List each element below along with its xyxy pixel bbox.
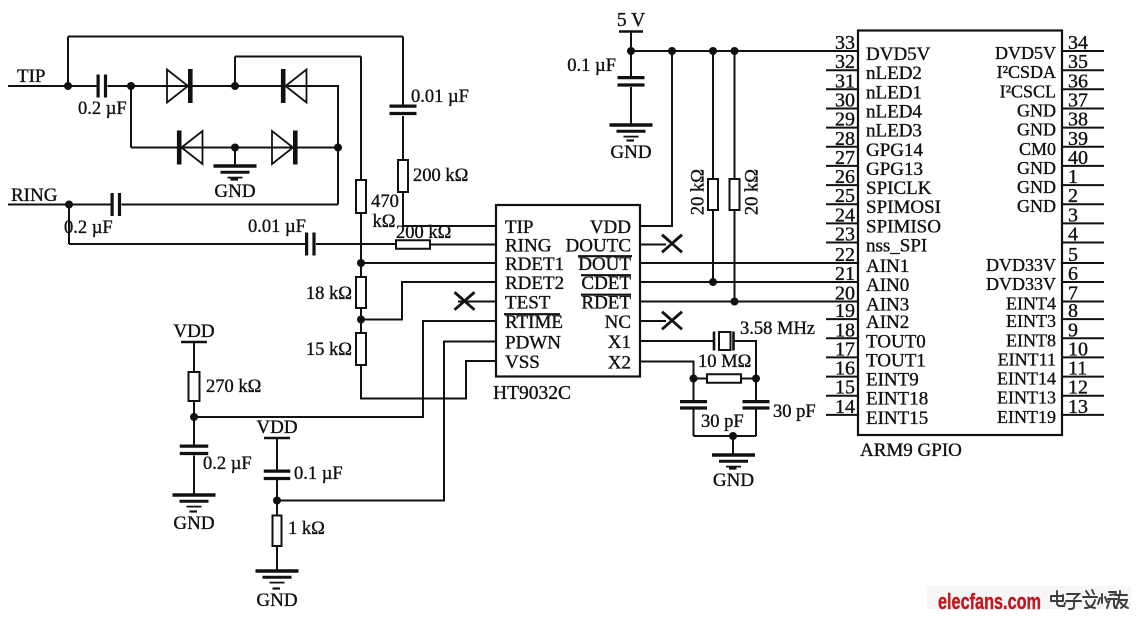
- svg-text:0.01 µF: 0.01 µF: [411, 87, 469, 107]
- svg-text:EINT15: EINT15: [866, 408, 928, 429]
- J1 pin 20 stub (left): [826, 301, 858, 303]
- J1 pin 17 stub (left): [826, 356, 858, 358]
- svg-text:VDD: VDD: [256, 417, 297, 438]
- wire R5 bottom to VSS route: [361, 361, 496, 399]
- wire TIP lead-in: [8, 85, 97, 87]
- J1 pin 9 stub (right): [1062, 337, 1104, 339]
- J1 pin 16 stub (left): [826, 376, 858, 378]
- svg-text:GND: GND: [1017, 120, 1056, 140]
- svg-text:0.2 µF: 0.2 µF: [78, 99, 127, 119]
- wire C7 to bottom rail: [755, 410, 757, 437]
- J1 pin 11 stub (right): [1062, 376, 1104, 378]
- J1 pin 24 stub (left): [826, 222, 858, 224]
- svg-text:GND: GND: [1017, 158, 1056, 178]
- svg-text:kΩ: kΩ: [373, 212, 396, 232]
- J1 pin 1 stub (right): [1062, 184, 1104, 186]
- resistor R5 15k vertical body: [356, 333, 366, 365]
- node bridge bottom-center junction: [231, 144, 239, 152]
- svg-text:PDWN: PDWN: [505, 333, 561, 354]
- wire C4 to R2: [402, 116, 404, 160]
- wire RING drop to coupling line: [68, 205, 70, 245]
- svg-text:VSS: VSS: [505, 352, 540, 373]
- wire top rail corner down to C4: [402, 37, 404, 107]
- wire DOUT to ARM pin 22: [640, 262, 858, 264]
- capacitor C6 30pF plates (left): [680, 400, 707, 403]
- svg-text:23: 23: [835, 224, 855, 246]
- wire VDD to R9: [193, 342, 195, 372]
- wire X2 to left node: [640, 362, 694, 379]
- node crystal right junction: [752, 375, 760, 383]
- wire C2 to bridge right vertical: [122, 204, 339, 206]
- svg-text:AIN0: AIN0: [866, 275, 909, 296]
- J1 pin 4 stub (right): [1062, 242, 1104, 244]
- wire top rail TIP to 0.01uF column: [68, 36, 403, 38]
- J1 pin 39 stub (right): [1062, 146, 1104, 148]
- svg-text:EINT13: EINT13: [997, 388, 1056, 408]
- wire bridge left vertical: [130, 86, 132, 148]
- overline for RTIME (active low): [504, 313, 560, 315]
- svg-text:nLED2: nLED2: [866, 63, 922, 84]
- resistor R4 18k vertical body: [356, 277, 366, 308]
- svg-text:TOUT0: TOUT0: [866, 331, 926, 352]
- resistor R7 20k body: [730, 179, 740, 210]
- connector J1 ARM9 GPIO body: [858, 31, 1062, 436]
- svg-text:GND: GND: [1017, 101, 1056, 121]
- power VDD tick bar: [181, 341, 207, 343]
- node PDWN/1k junction: [273, 497, 281, 505]
- wire C8 to ground: [193, 456, 195, 496]
- wire junction down to C8: [193, 417, 195, 446]
- wire C5 to ground: [630, 87, 632, 125]
- node RDET2 junction: [357, 316, 365, 324]
- svg-text:20 kΩ: 20 kΩ: [743, 169, 763, 215]
- resistor R8 10M horizontal body: [707, 374, 741, 383]
- wire 5V rail to ARM pin 33: [631, 50, 858, 52]
- J1 pin 15 stub (left): [826, 395, 858, 397]
- J1 pin 12 stub (right): [1062, 395, 1104, 397]
- svg-text:TOUT1: TOUT1: [866, 350, 926, 371]
- svg-text:nLED3: nLED3: [866, 121, 922, 142]
- wire C1 to bridge: [108, 85, 132, 87]
- J1 pin 7 stub (right): [1062, 301, 1104, 303]
- J1 pin 27 stub (left): [826, 165, 858, 167]
- svg-text:RDET2: RDET2: [505, 273, 564, 294]
- ground GND (5V filter): [610, 123, 653, 127]
- svg-text:30 pF: 30 pF: [773, 402, 816, 422]
- svg-text:1 kΩ: 1 kΩ: [288, 519, 325, 539]
- wire 20k #2 from rail: [734, 51, 736, 179]
- capacitor C7 30pF plates (right): [743, 400, 770, 403]
- wire rail corner down to R3 470k: [360, 57, 362, 181]
- diode D4 (bottom-right, pointing right): [272, 131, 293, 164]
- svg-text:EINT9: EINT9: [866, 370, 919, 391]
- svg-text:nss_SPI: nss_SPI: [866, 236, 927, 257]
- svg-text:RDET1: RDET1: [505, 254, 564, 275]
- svg-text:0.2 µF: 0.2 µF: [203, 454, 252, 474]
- J1 pin 36 stub (right): [1062, 88, 1104, 90]
- svg-text:DVD5V: DVD5V: [995, 43, 1056, 63]
- node TIP junction: [64, 82, 72, 90]
- capacitor C3 0.01uF plates (series to RING pin): [305, 233, 308, 256]
- no-connect X on NC: [662, 312, 682, 330]
- capacitor C4 0.01uF plates (vertical): [390, 104, 417, 107]
- svg-text:10 MΩ: 10 MΩ: [698, 352, 751, 372]
- power VDD tick bar (1k branch): [264, 437, 290, 439]
- wire right node down to C7: [755, 379, 757, 403]
- svg-text:GND: GND: [713, 470, 754, 491]
- wire 20k #1 from rail: [712, 51, 714, 179]
- wire TEST stub to chip: [458, 301, 496, 303]
- node RDET1 junction: [357, 259, 365, 267]
- J1 pin 29 stub (left): [826, 127, 858, 129]
- svg-text:EINT18: EINT18: [866, 389, 928, 410]
- wire VDD pin up to 5V rail: [640, 51, 672, 226]
- wire RTIME route to 270k junction: [194, 321, 496, 417]
- wire coupling line to 0.01uF cap: [69, 243, 305, 245]
- node R7/RDET junction: [731, 298, 739, 306]
- J1 pin 10 stub (right): [1062, 356, 1104, 358]
- J1 pin 28 stub (left): [826, 146, 858, 148]
- J1 pin 8 stub (right): [1062, 318, 1104, 320]
- J1 pin 33 stub (left): [826, 50, 858, 52]
- no-connect X on TEST pin: [455, 292, 475, 310]
- wire R8 to right node: [741, 378, 756, 380]
- J1 pin 37 stub (right): [1062, 108, 1104, 110]
- resistor R1 200k horizontal body: [396, 240, 430, 249]
- node bridge top-center junction: [231, 82, 239, 90]
- svg-text:200 kΩ: 200 kΩ: [413, 166, 468, 186]
- wire left node down to C6: [693, 379, 695, 403]
- resistor R10 1k body: [273, 516, 282, 547]
- wire R10 to ground: [276, 546, 278, 571]
- wire R1 to RING pin: [430, 244, 496, 246]
- node R6/CDET junction: [709, 278, 717, 286]
- resistor R6 20k body: [708, 179, 718, 210]
- svg-text:SPIMOSI: SPIMOSI: [866, 197, 941, 218]
- diode D3 (bottom-left, pointing left): [182, 131, 203, 164]
- svg-text:GND: GND: [173, 513, 214, 534]
- capacitor C9 0.1uF plates: [264, 470, 291, 473]
- svg-text:4: 4: [1068, 224, 1078, 246]
- wire R7 to RDET line: [734, 210, 736, 302]
- svg-text:GND: GND: [214, 181, 255, 202]
- svg-text:ARM9 GPIO: ARM9 GPIO: [860, 440, 962, 461]
- svg-text:SPIMISO: SPIMISO: [866, 216, 941, 237]
- J1 pin 32 stub (left): [826, 69, 858, 71]
- capacitor C1 0.2uF plates (TIP series): [96, 75, 99, 98]
- wire crystal to right node: [734, 341, 757, 379]
- no-connect X on DOUTC: [662, 235, 682, 253]
- J1 pin 14 stub (left): [826, 414, 858, 416]
- svg-text:0.2 µF: 0.2 µF: [64, 218, 113, 238]
- J1 pin 30 stub (left): [826, 108, 858, 110]
- svg-text:VDD: VDD: [173, 321, 214, 342]
- svg-text:0.1 µF: 0.1 µF: [294, 464, 343, 484]
- svg-text:RING: RING: [11, 185, 58, 206]
- wire bridge center to ground: [234, 148, 236, 167]
- overline for CDET (active low): [581, 274, 631, 276]
- wire RDET2 jog to chip: [361, 282, 496, 320]
- wire C3 to 200k resistor: [316, 243, 396, 245]
- op-amp U1 HT9032C body: [496, 205, 640, 377]
- svg-text:TEST: TEST: [505, 293, 551, 314]
- node RING junction: [65, 201, 73, 209]
- svg-text:GPG14: GPG14: [866, 140, 924, 161]
- svg-text:CM0: CM0: [1019, 139, 1056, 159]
- svg-text:I²CSCL: I²CSCL: [1000, 81, 1056, 101]
- ground GND (crystal): [712, 453, 755, 457]
- overline for DOUT (active low): [578, 255, 632, 257]
- wire RDET to ARM pin 20: [640, 301, 858, 303]
- svg-text:GND: GND: [256, 590, 297, 611]
- J1 pin 35 stub (right): [1062, 69, 1104, 71]
- wire R2 down and right to TIP pin: [403, 192, 496, 226]
- wire to crystal ground: [732, 436, 734, 455]
- node bridge bottom-right junction: [334, 144, 342, 152]
- node RTIME/270k junction: [190, 413, 198, 421]
- svg-text:SPICLK: SPICLK: [866, 178, 932, 199]
- wire bridge top row: [131, 85, 338, 87]
- svg-text:GND: GND: [1017, 196, 1056, 216]
- svg-text:AIN2: AIN2: [866, 312, 909, 333]
- J1 pin 5 stub (right): [1062, 262, 1104, 264]
- wire R4 to R5: [360, 308, 362, 333]
- node bridge top-left junction: [127, 82, 135, 90]
- svg-text:13: 13: [1068, 396, 1088, 418]
- svg-text:20 kΩ: 20 kΩ: [689, 169, 709, 215]
- svg-text:270 kΩ: 270 kΩ: [206, 377, 261, 397]
- J1 pin 21 stub (left): [826, 281, 858, 283]
- node crystal ground junction: [729, 432, 737, 440]
- logo chinese characters (drawn strokes): [1051, 590, 1128, 609]
- svg-text:elecfans.com: elecfans.com: [938, 589, 1041, 614]
- J1 pin 18 stub (left): [826, 337, 858, 339]
- svg-text:EINT19: EINT19: [997, 407, 1056, 427]
- wire C6 to bottom rail: [693, 410, 695, 437]
- svg-text:GND: GND: [1017, 177, 1056, 197]
- svg-text:3.58 MHz: 3.58 MHz: [740, 319, 815, 339]
- wire junction to R10: [276, 501, 278, 516]
- svg-text:EINT14: EINT14: [997, 369, 1056, 389]
- ground GND (1k branch): [256, 569, 299, 573]
- wire 5V down to C5: [630, 51, 632, 77]
- wire CDET to ARM pin 21: [640, 281, 858, 283]
- svg-text:0.01 µF: 0.01 µF: [248, 217, 306, 237]
- svg-text:X1: X1: [608, 332, 631, 353]
- svg-text:EINT8: EINT8: [1006, 330, 1056, 350]
- J1 pin 19 stub (left): [826, 318, 858, 320]
- svg-text:DVD33V: DVD33V: [986, 274, 1056, 294]
- node 5V rail junction at 20k #1: [709, 47, 717, 55]
- capacitor C5 0.1uF plates: [618, 76, 645, 79]
- J1 pin 26 stub (left): [826, 184, 858, 186]
- wire left node to R8: [694, 378, 708, 380]
- svg-text:15 kΩ: 15 kΩ: [306, 340, 352, 360]
- svg-text:nLED1: nLED1: [866, 82, 922, 103]
- svg-text:DVD5V: DVD5V: [866, 44, 931, 65]
- svg-text:I²CSDA: I²CSDA: [997, 62, 1056, 82]
- wire PDWN route to 1k junction: [277, 342, 496, 501]
- J1 pin 6 stub (right): [1062, 281, 1104, 283]
- svg-text:14: 14: [835, 396, 855, 418]
- wire RING lead-in: [8, 204, 111, 206]
- power +5V tick bar: [619, 30, 643, 32]
- node 5V rail junction at VDD riser: [668, 47, 676, 55]
- overline for RDET (active low): [581, 294, 631, 296]
- wire crystal bottom rail: [694, 435, 757, 437]
- J1 pin 38 stub (right): [1062, 127, 1104, 129]
- J1 pin 13 stub (right): [1062, 414, 1104, 416]
- svg-text:GPG13: GPG13: [866, 159, 923, 180]
- wire NC stub: [640, 320, 666, 322]
- wire X1 to crystal: [640, 340, 714, 342]
- wire bridge top-center riser: [234, 57, 236, 87]
- wire bridge right vertical down to RING line: [337, 85, 339, 205]
- svg-text:470: 470: [371, 192, 399, 212]
- J1 pin 31 stub (left): [826, 88, 858, 90]
- resistor R3 470k vertical body: [356, 180, 366, 213]
- J1 pin 25 stub (left): [826, 203, 858, 205]
- wire RDET1 to chip: [361, 262, 496, 264]
- wire 5V to rail: [630, 32, 632, 52]
- svg-text:30 pF: 30 pF: [701, 412, 744, 432]
- J1 pin 22 stub (left): [826, 262, 858, 264]
- wire bridge bottom row: [131, 147, 338, 149]
- diode D1 (top-left, pointing right): [167, 70, 188, 103]
- J1 pin 2 stub (right): [1062, 203, 1104, 205]
- node 5V rail junction at cap: [627, 47, 635, 55]
- svg-text:TIP: TIP: [17, 66, 46, 87]
- wire R3 to R4 (crosses RING line): [360, 213, 362, 277]
- wire R6 to CDET line: [712, 210, 714, 282]
- node 5V rail junction at 20k #2: [731, 47, 739, 55]
- wire rail bridge-top to 470k column: [235, 56, 361, 58]
- capacitor C2 0.2uF plates (RING series): [110, 193, 113, 216]
- diode D2 (top-right, pointing left): [286, 70, 307, 103]
- wire VDD to C9: [276, 438, 278, 471]
- wire DOUTC stub: [640, 244, 666, 246]
- ground GND (bridge): [214, 164, 257, 168]
- wire TIP riser to top rail: [67, 37, 69, 87]
- ground GND (270k branch): [173, 493, 216, 497]
- J1 pin 34 stub (right): [1062, 50, 1104, 52]
- J1 pin 3 stub (right): [1062, 222, 1104, 224]
- logo background strip: [927, 586, 1131, 609]
- J1 pin 23 stub (left): [826, 242, 858, 244]
- svg-text:18 kΩ: 18 kΩ: [306, 284, 352, 304]
- svg-text:0.1 µF: 0.1 µF: [567, 56, 616, 76]
- capacitor C8 0.2uF plates: [180, 445, 209, 448]
- resistor R2 200k vertical body: [398, 160, 408, 192]
- wire R9 to junction: [193, 401, 195, 417]
- svg-text:X2: X2: [608, 353, 631, 374]
- svg-text:HT9032C: HT9032C: [493, 383, 571, 404]
- svg-text:5 V: 5 V: [617, 10, 645, 31]
- wire C9 to junction: [276, 480, 278, 501]
- svg-text:GND: GND: [610, 142, 651, 163]
- svg-text:EINT11: EINT11: [998, 349, 1056, 369]
- crystal Y1 3.58MHz symbol: [713, 332, 716, 351]
- svg-text:EINT3: EINT3: [1006, 311, 1056, 331]
- resistor R9 270k body: [189, 372, 200, 401]
- svg-text:NC: NC: [605, 312, 631, 333]
- svg-text:nLED4: nLED4: [866, 102, 922, 123]
- node crystal left junction: [690, 375, 698, 383]
- svg-text:DVD33V: DVD33V: [986, 255, 1056, 275]
- J1 pin 40 stub (right): [1062, 165, 1104, 167]
- svg-text:AIN1: AIN1: [866, 256, 909, 277]
